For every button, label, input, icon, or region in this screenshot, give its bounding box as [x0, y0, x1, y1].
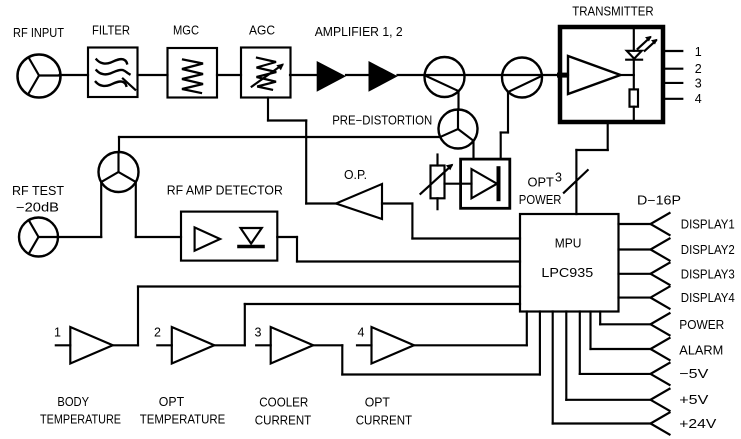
svg-text:RF INPUT: RF INPUT: [13, 26, 64, 40]
svg-text:OPT: OPT: [159, 395, 185, 409]
svg-text:DISPLAY1: DISPLAY1: [681, 216, 735, 231]
svg-text:2: 2: [154, 326, 161, 340]
svg-text:LPC935: LPC935: [541, 266, 593, 280]
svg-text:FILTER: FILTER: [92, 24, 130, 38]
svg-text:BODY: BODY: [57, 395, 89, 409]
svg-text:DISPLAY4: DISPLAY4: [681, 290, 735, 305]
svg-text:DISPLAY2: DISPLAY2: [681, 242, 735, 257]
svg-text:TEMPERATURE: TEMPERATURE: [40, 413, 121, 427]
svg-text:MGC: MGC: [173, 24, 199, 38]
svg-text:DISPLAY3: DISPLAY3: [681, 266, 735, 281]
svg-text:PRE−DISTORTION: PRE−DISTORTION: [332, 113, 432, 127]
svg-text:OPT: OPT: [528, 176, 555, 190]
svg-text:OPT: OPT: [365, 396, 391, 410]
svg-text:3: 3: [695, 76, 702, 90]
svg-text:COOLER: COOLER: [259, 396, 308, 410]
svg-text:RF AMP DETECTOR: RF AMP DETECTOR: [167, 183, 283, 197]
svg-text:TRANSMITTER: TRANSMITTER: [572, 5, 653, 19]
svg-text:1: 1: [695, 45, 702, 59]
svg-text:+5V: +5V: [679, 392, 708, 407]
svg-text:2: 2: [695, 62, 702, 76]
svg-text:−20dB: −20dB: [16, 201, 59, 215]
svg-text:AGC: AGC: [249, 24, 275, 38]
svg-text:RF TEST: RF TEST: [12, 184, 64, 198]
svg-text:MPU: MPU: [555, 237, 582, 251]
svg-text:3: 3: [255, 326, 262, 340]
svg-text:+24V: +24V: [679, 416, 716, 431]
svg-text:POWER: POWER: [519, 193, 562, 207]
svg-text:1: 1: [54, 326, 61, 340]
svg-text:4: 4: [695, 92, 702, 106]
svg-text:TEMPERATURE: TEMPERATURE: [140, 413, 226, 427]
svg-text:O.P.: O.P.: [344, 168, 367, 182]
svg-text:CURRENT: CURRENT: [255, 414, 312, 428]
svg-text:D−16P: D−16P: [637, 193, 681, 207]
svg-text:POWER: POWER: [679, 317, 724, 332]
svg-text:−5V: −5V: [679, 366, 708, 381]
svg-text:3: 3: [555, 171, 562, 185]
svg-text:4: 4: [358, 326, 365, 340]
svg-text:ALARM: ALARM: [679, 343, 723, 358]
svg-text:CURRENT: CURRENT: [356, 414, 413, 428]
svg-text:AMPLIFIER 1, 2: AMPLIFIER 1, 2: [315, 25, 403, 39]
